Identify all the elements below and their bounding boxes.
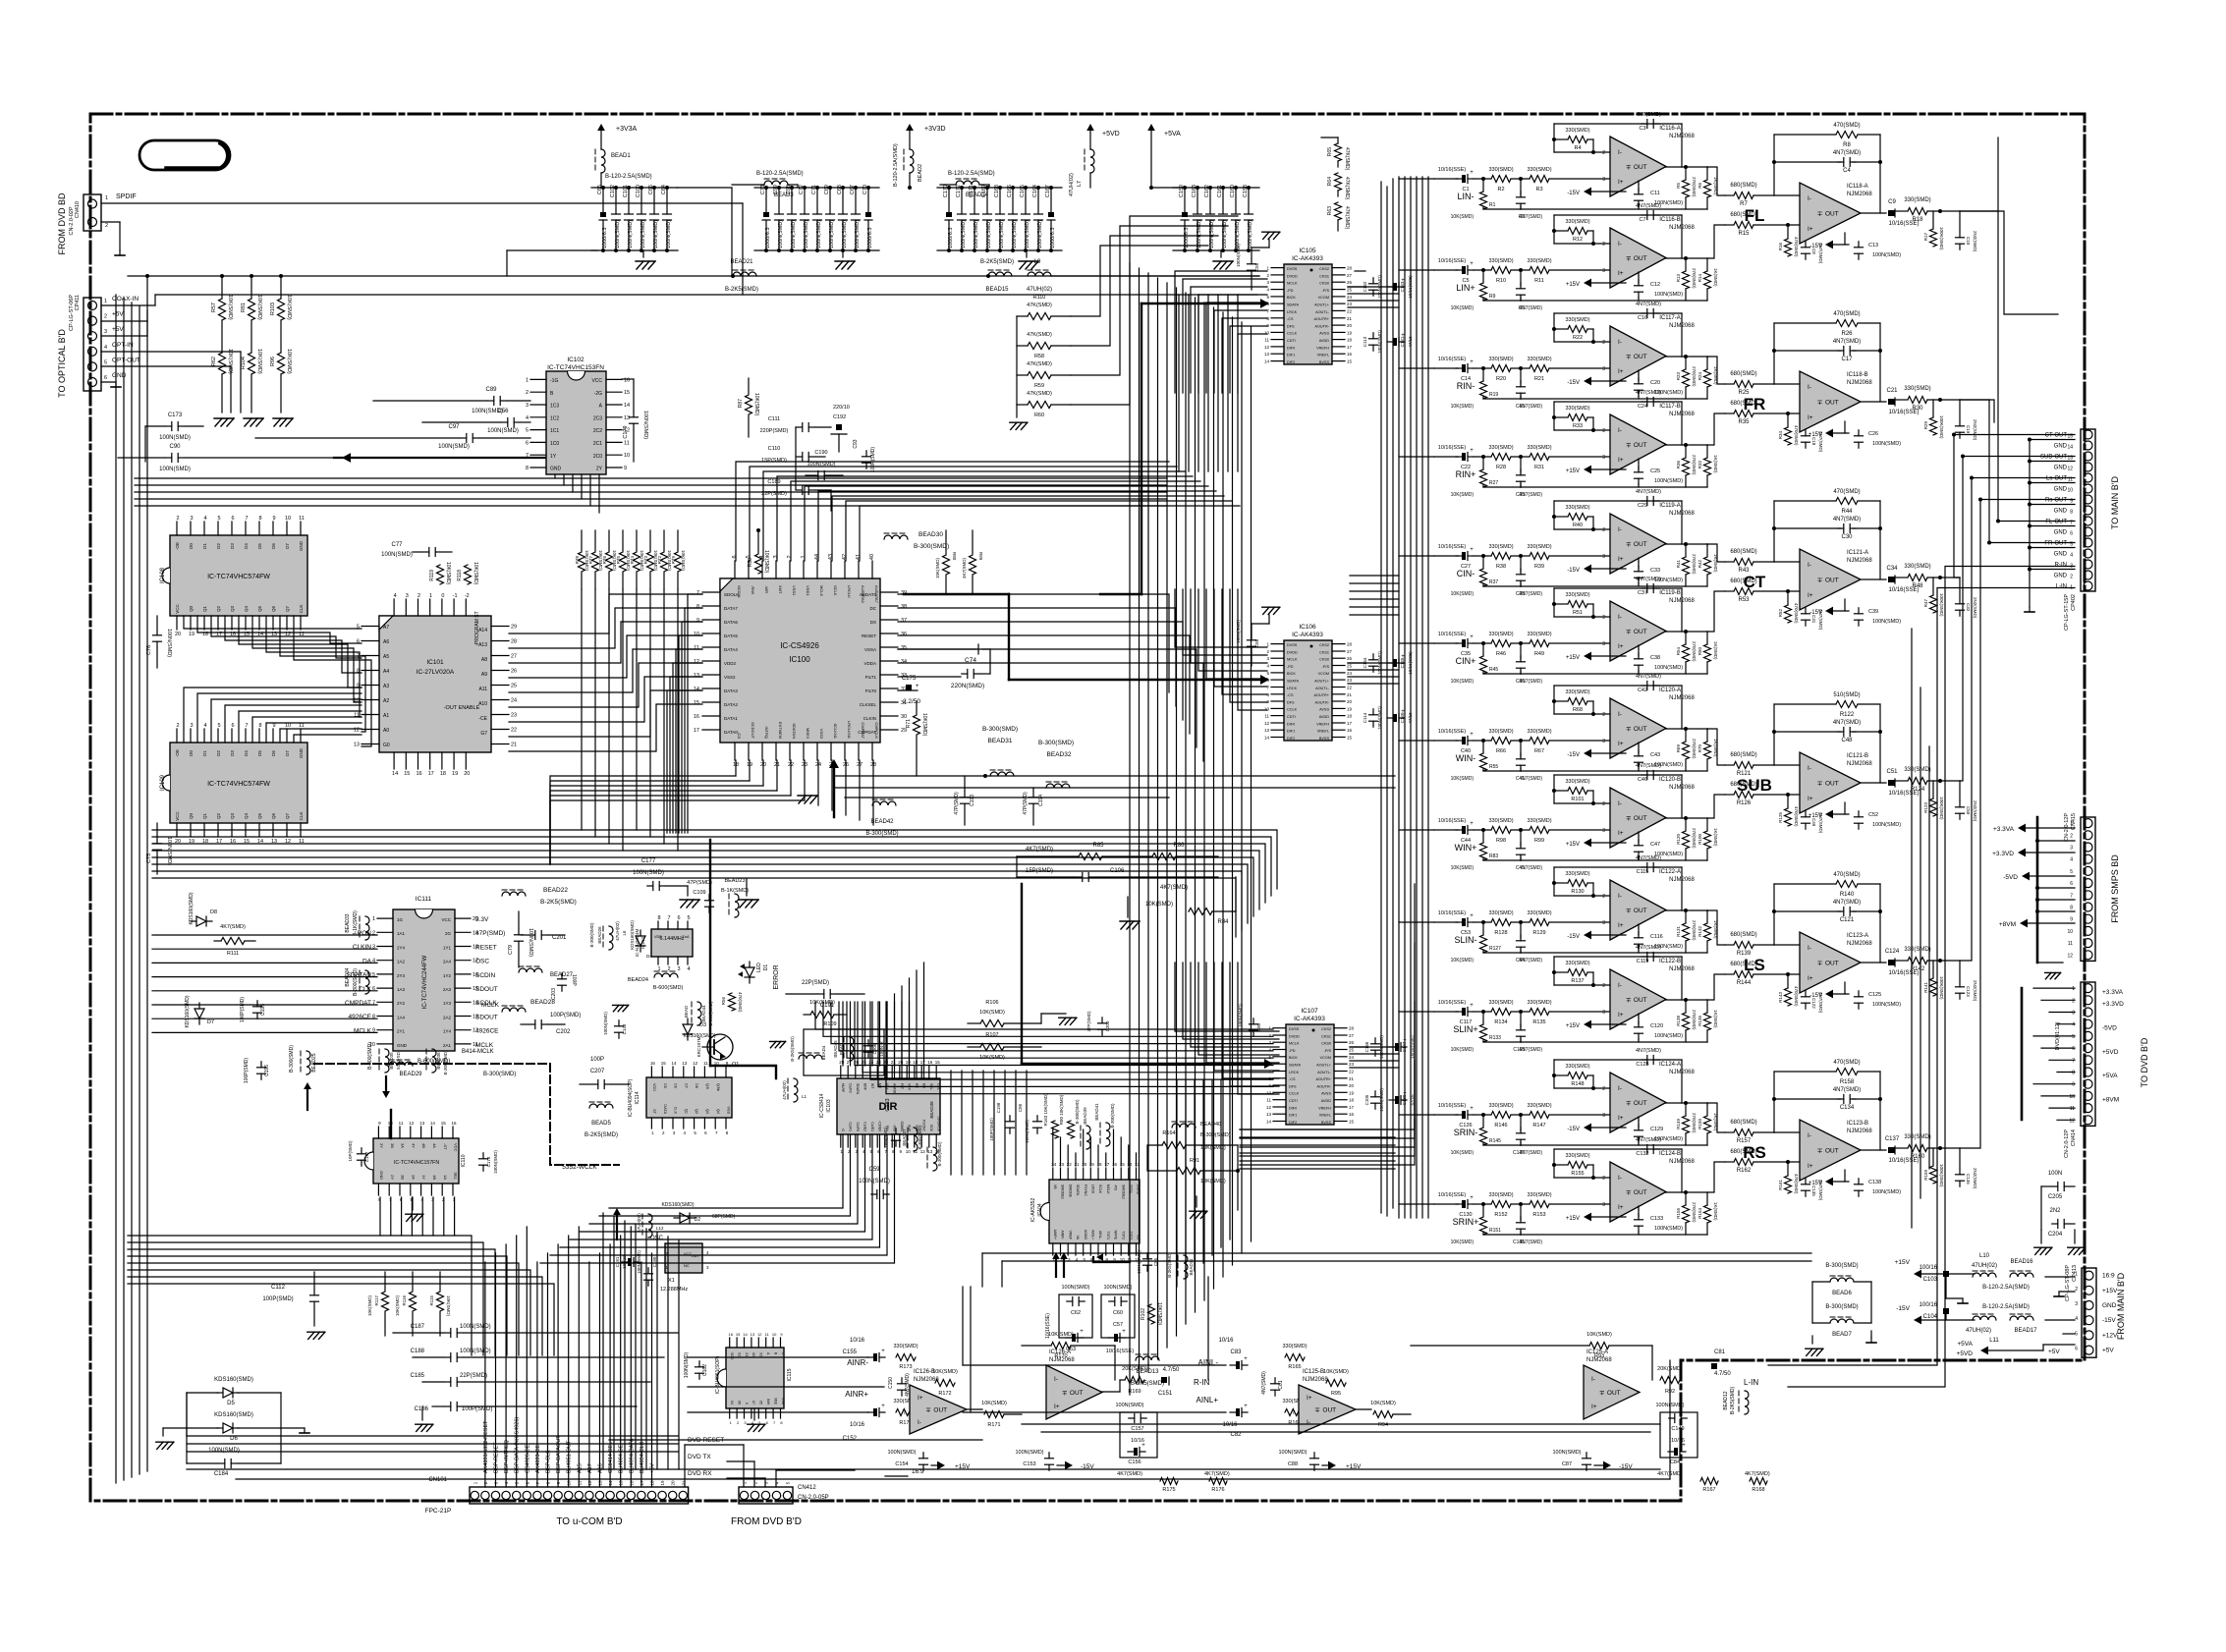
svg-text:VREFL: VREFL	[1317, 730, 1329, 734]
svg-text:330(SMD): 330(SMD)	[1904, 767, 1930, 773]
svg-text:8: 8	[2070, 906, 2073, 911]
svg-text:OSC: OSC	[475, 959, 489, 965]
svg-text:330(SMD): 330(SMD)	[1527, 818, 1551, 824]
resistor R165	[1282, 1344, 1307, 1370]
svg-text:330(SMD): 330(SMD)	[1527, 445, 1551, 451]
svg-text:3: 3	[526, 403, 529, 409]
capacitor C74	[898, 644, 990, 689]
svg-text:330(SMD): 330(SMD)	[1488, 632, 1513, 637]
svg-text:VDD: VDD	[654, 935, 662, 939]
ground center2	[739, 879, 758, 908]
svg-text:D4: D4	[244, 750, 249, 756]
svg-text:BEAD39: BEAD39	[1083, 1107, 1087, 1125]
svg-text:C129: C129	[1650, 1127, 1663, 1132]
svg-text:DSP-DATAOUT: DSP-DATAOUT	[556, 1435, 562, 1473]
svg-text:C37: C37	[1638, 590, 1647, 596]
svg-text:AVSS: AVSS	[1319, 708, 1329, 712]
svg-text:100N(SMD): 100N(SMD)	[1872, 1189, 1901, 1195]
svg-text:220P(SMD): 220P(SMD)	[760, 428, 789, 434]
svg-text:DATA1: DATA1	[724, 716, 738, 721]
svg-text:C84: C84	[1670, 1459, 1680, 1465]
svg-text:4N7(SMD): 4N7(SMD)	[1833, 517, 1861, 523]
svg-text:4N7(SMD): 4N7(SMD)	[1636, 1048, 1661, 1054]
svg-text:B-300(SMD): B-300(SMD)	[982, 726, 1018, 733]
svg-text:-PD: -PD	[1287, 665, 1294, 669]
svg-text:I-: I-	[1618, 711, 1622, 718]
svg-text:R101: R101	[1571, 797, 1584, 802]
svg-text:C189: C189	[767, 479, 780, 485]
bead BEAD30	[884, 531, 949, 550]
svg-text:C62: C62	[1071, 1310, 1081, 1316]
svg-text:R76: R76	[602, 556, 607, 565]
svg-text:16: 16	[451, 1121, 457, 1126]
svg-text:C20: C20	[1650, 380, 1660, 386]
feedback R4 C3	[1552, 112, 1682, 167]
channel row LIN+ input network	[1434, 258, 1610, 311]
svg-text:I-: I-	[1808, 195, 1811, 202]
svg-text:10/16(SSE): 10/16(SSE)	[1438, 1103, 1467, 1109]
svg-text:R79: R79	[671, 556, 676, 565]
svg-text:DATA6: DATA6	[724, 620, 738, 625]
op-amp IC119-A	[1602, 503, 1695, 574]
svg-text:-OE: -OE	[175, 749, 180, 757]
svg-text:C60: C60	[1113, 1310, 1123, 1316]
svg-text:I+: I+	[1618, 741, 1624, 747]
svg-text:100N(SMD): 100N(SMD)	[603, 1012, 608, 1035]
channel row SRIN+ input network	[1434, 1192, 1610, 1245]
svg-text:MCLK: MCLK	[1106, 1184, 1110, 1194]
svg-text:R94: R94	[1378, 1422, 1388, 1428]
svg-text:C201: C201	[552, 935, 567, 941]
svg-text:4: 4	[2075, 1316, 2078, 1322]
svg-text:FPC-21P: FPC-21P	[425, 1508, 452, 1514]
svg-text:22: 22	[1347, 308, 1353, 313]
svg-text:2: 2	[787, 555, 793, 558]
svg-text:BEAD37: BEAD37	[902, 1129, 907, 1146]
svg-text:D1: D1	[202, 750, 207, 756]
svg-text:C122: C122	[1811, 998, 1816, 1009]
bead BEAD39	[1075, 1099, 1090, 1149]
op-amp IC116-B	[1602, 217, 1695, 288]
arrows into IC104	[1052, 1252, 1130, 1277]
svg-text:IC118-A: IC118-A	[1847, 184, 1868, 190]
svg-text:VCC: VCC	[175, 604, 180, 614]
svg-text:AOUTR+: AOUTR+	[1313, 693, 1329, 697]
svg-text:C195: C195	[260, 1004, 266, 1016]
svg-text:330(SMD): 330(SMD)	[1488, 1103, 1513, 1109]
svg-text:C154: C154	[895, 1461, 908, 1467]
svg-text:CKS2: CKS2	[1319, 267, 1329, 271]
svg-text:SCDOUT: SCDOUT	[751, 722, 755, 739]
svg-text:+: +	[1470, 261, 1474, 267]
op-amp IC116-A	[1602, 126, 1695, 196]
svg-text:R130: R130	[1571, 889, 1584, 895]
resistor R116	[395, 1272, 417, 1336]
svg-text:270(SMD): 270(SMD)	[1692, 641, 1697, 662]
svg-text:CN-2.0-05P: CN-2.0-05P	[798, 1495, 829, 1501]
svg-text:100N(SMD): 100N(SMD)	[166, 629, 172, 657]
svg-text:CP-LG-ST-06P: CP-LG-ST-06P	[69, 295, 75, 331]
svg-text:100N(SMD): 100N(SMD)	[208, 1448, 240, 1454]
svg-text:Q2: Q2	[216, 813, 221, 820]
svg-text:C3: C3	[1639, 126, 1645, 132]
svg-text:11: 11	[2068, 941, 2073, 947]
svg-text:RE: RE	[915, 1083, 918, 1089]
svg-text:I-: I-	[1618, 526, 1622, 533]
svg-text:1K(SMD): 1K(SMD)	[1713, 268, 1718, 287]
svg-text:20: 20	[671, 1480, 676, 1486]
power +15V cap C52	[1809, 802, 1901, 829]
capacitor C86	[1018, 1103, 1042, 1143]
net 5352-WCLK	[562, 1164, 597, 1171]
svg-text:+5VA: +5VA	[1164, 131, 1181, 138]
svg-text:3: 3	[1602, 739, 1605, 744]
svg-text:R149: R149	[1676, 1119, 1681, 1129]
svg-text:OUT: OUT	[933, 1407, 947, 1414]
svg-text:OUT: OUT	[1634, 726, 1647, 733]
svg-text:6: 6	[2075, 1347, 2078, 1352]
op-amp IC117-B	[1602, 404, 1695, 474]
svg-text:VSS: VSS	[781, 1398, 785, 1405]
svg-text:CLKIN: CLKIN	[353, 944, 371, 951]
svg-text:4: 4	[394, 593, 397, 599]
wire bottom long lines	[187, 1360, 1670, 1479]
wire IC110 fan	[380, 1197, 455, 1236]
svg-text:220/10: 220/10	[833, 405, 850, 411]
svg-text:C26: C26	[1868, 431, 1878, 437]
svg-text:INTRQ: INTRQ	[764, 727, 769, 739]
svg-text:100P: 100P	[571, 974, 577, 986]
svg-text:AUDATA7: AUDATA7	[874, 585, 879, 604]
svg-text:IC-AK5352: IC-AK5352	[1030, 1198, 1036, 1223]
resistor R159 cap C136	[1923, 1148, 1977, 1189]
svg-text:R93: R93	[1594, 1353, 1604, 1359]
svg-text:CMPDAT: CMPDAT	[861, 722, 865, 739]
svg-text:C46: C46	[1638, 777, 1647, 783]
svg-text:1: 1	[429, 593, 432, 599]
svg-text:10: 10	[285, 723, 291, 729]
svg-text:GND: GND	[397, 1043, 408, 1048]
svg-text:10: 10	[285, 516, 291, 522]
svg-text:C29: C29	[1638, 503, 1647, 509]
svg-text:R57: R57	[211, 303, 217, 312]
svg-text:4: 4	[203, 723, 206, 729]
capacitor C177	[633, 858, 699, 908]
svg-text:2C2: 2C2	[593, 428, 602, 434]
svg-text:R156: R156	[1676, 1208, 1681, 1219]
svg-text:BEAD36: BEAD36	[436, 1052, 441, 1070]
svg-text:37: 37	[901, 618, 907, 624]
svg-text:BICK: BICK	[1287, 296, 1296, 300]
svg-text:22P(SMD): 22P(SMD)	[802, 980, 829, 986]
svg-text:330(SMD): 330(SMD)	[1565, 1064, 1589, 1070]
svg-text:C137: C137	[1885, 1136, 1900, 1142]
op-amp IC126-A	[1046, 1349, 1102, 1419]
feedback R40 C29	[1552, 489, 1682, 544]
svg-text:1000/6.3: 1000/6.3	[602, 228, 608, 248]
wire right outputs to CP402	[1952, 138, 2075, 1148]
svg-text:R59: R59	[1034, 383, 1044, 389]
svg-text:CP-LG-ST-15P: CP-LG-ST-15P	[2064, 594, 2070, 631]
svg-text:100N(SMD): 100N(SMD)	[1012, 220, 1018, 248]
svg-text:47UH(02): 47UH(02)	[1027, 287, 1052, 293]
net SDATAN	[347, 972, 372, 979]
svg-text:IC105: IC105	[1299, 248, 1316, 254]
svg-text:VDDA: VDDA	[863, 661, 876, 666]
svg-text:GND: GND	[2054, 487, 2068, 493]
svg-text:330(SMD): 330(SMD)	[1282, 1344, 1307, 1349]
svg-text:3: 3	[1602, 641, 1605, 647]
svg-text:C150: C150	[888, 1377, 894, 1389]
svg-text:R95: R95	[1331, 1391, 1341, 1397]
svg-text:AK4393/5352-RESET: AK4393/5352-RESET	[483, 1420, 489, 1473]
svg-text:VCOM: VCOM	[1320, 1056, 1331, 1060]
svg-text:21: 21	[1347, 316, 1353, 321]
wire stage1 to stage2 links	[1707, 167, 1725, 1192]
svg-text:CLK: CLK	[359, 986, 371, 993]
svg-text:D6: D6	[271, 750, 276, 756]
svg-text:330(SMD): 330(SMD)	[1904, 564, 1930, 570]
svg-text:330(SMD): 330(SMD)	[1488, 167, 1513, 173]
svg-text:R96: R96	[270, 357, 276, 366]
svg-text:Q1: Q1	[202, 606, 207, 613]
svg-text:-ST: -ST	[443, 1143, 448, 1150]
svg-text:A13: A13	[478, 642, 487, 648]
svg-text:100N(SMD): 100N(SMD)	[166, 837, 172, 865]
svg-text:47K(SMD): 47K(SMD)	[1344, 177, 1350, 200]
resistor R96	[270, 320, 292, 413]
svg-text:CN412: CN412	[798, 1485, 816, 1491]
svg-text:15: 15	[1349, 1120, 1355, 1125]
svg-text:23: 23	[511, 713, 517, 719]
svg-text:2: 2	[2070, 575, 2073, 580]
svg-text:DVSS: DVSS	[1289, 1027, 1300, 1031]
ground R91	[1190, 1196, 1207, 1218]
svg-text:16:9: 16:9	[2102, 1273, 2115, 1280]
svg-text:R41: R41	[1676, 560, 1681, 569]
capacitor C79	[508, 911, 533, 967]
wires power cluster to CP413	[2045, 1277, 2075, 1334]
svg-text:+15V: +15V	[1566, 468, 1580, 474]
svg-text:∓: ∓	[1314, 1407, 1320, 1414]
svg-text:CP402: CP402	[2071, 594, 2077, 611]
svg-text:330(SMD): 330(SMD)	[893, 1344, 918, 1349]
svg-text:3A: 3A	[401, 1143, 406, 1148]
svg-text:C134: C134	[1840, 1105, 1855, 1111]
svg-text:R4: R4	[1574, 145, 1581, 151]
svg-text:C145: C145	[1400, 657, 1405, 668]
svg-text:+: +	[1470, 448, 1474, 454]
svg-text:680(SMD): 680(SMD)	[1730, 962, 1756, 967]
svg-text:CN-2.0-12P: CN-2.0-12P	[2064, 1129, 2070, 1158]
svg-text:R122: R122	[1840, 712, 1855, 718]
svg-text:20: 20	[175, 632, 181, 637]
svg-text:680(SMD): 680(SMD)	[1730, 578, 1756, 584]
svg-text:25: 25	[1347, 288, 1353, 293]
resistor R141 cap C123	[1923, 961, 1977, 1002]
svg-text:IC118-B: IC118-B	[1847, 372, 1868, 378]
capacitor C205	[2048, 1171, 2070, 1200]
svg-text:1K(SMD): 1K(SMD)	[1713, 641, 1718, 660]
svg-text:BEAD35: BEAD35	[389, 1052, 394, 1070]
bead BEAD40	[1172, 1122, 1231, 1138]
svg-text:CDTI: CDTI	[1287, 715, 1296, 719]
svg-text:100/16: 100/16	[1920, 1265, 1938, 1271]
svg-text:+: +	[1470, 547, 1474, 553]
svg-text:Ca/E2: Ca/E2	[863, 1122, 867, 1131]
svg-text:-PD: -PD	[1114, 1184, 1118, 1191]
svg-text:L9: L9	[1034, 259, 1041, 265]
svg-text:330(SMD): 330(SMD)	[1904, 386, 1930, 392]
resistor R115	[429, 1272, 451, 1336]
svg-text:Q2: Q2	[695, 1109, 698, 1114]
svg-text:DATA3: DATA3	[724, 688, 738, 693]
svg-text:DIF2: DIF2	[1289, 1121, 1297, 1125]
svg-text:IC-27LV020A: IC-27LV020A	[417, 669, 455, 676]
svg-text:∓: ∓	[1817, 781, 1823, 788]
svg-text:C32: C32	[1966, 603, 1971, 612]
svg-text:AINR-: AINR-	[847, 1358, 868, 1367]
svg-text:B-300(SMD): B-300(SMD)	[289, 1045, 295, 1073]
svg-text:-5VD: -5VD	[2003, 874, 2018, 881]
svg-text:L10: L10	[1979, 1253, 1990, 1259]
svg-text:R9: R9	[1489, 294, 1496, 300]
svg-text:330(SMD): 330(SMD)	[1527, 1192, 1551, 1198]
svg-text:4N7(SMD): 4N7(SMD)	[1833, 720, 1861, 726]
svg-text:1: 1	[526, 377, 529, 383]
svg-text:7: 7	[1292, 1410, 1295, 1416]
svg-text:2: 2	[1602, 150, 1605, 156]
svg-text:C109: C109	[693, 890, 705, 896]
svg-text:R125: R125	[1778, 812, 1783, 823]
svg-text:43: 43	[828, 554, 834, 560]
svg-text:Q1: Q1	[202, 813, 207, 820]
resistor R62	[211, 320, 233, 413]
svg-text:27: 27	[1347, 649, 1353, 654]
wire center horizontals to IC107	[815, 1002, 1273, 1094]
svg-text:11: 11	[703, 1061, 708, 1066]
net AINR+	[843, 1390, 886, 1442]
svg-text:470(SMD): 470(SMD)	[1833, 872, 1860, 878]
svg-text:470(SMD): 470(SMD)	[738, 992, 743, 1013]
svg-text:R45: R45	[1489, 667, 1498, 673]
svg-text:R89: R89	[978, 552, 983, 561]
svg-text:7: 7	[526, 453, 529, 459]
svg-text:47UH(02): 47UH(02)	[1972, 1263, 1997, 1269]
svg-text:VSS: VSS	[727, 1106, 731, 1114]
svg-text:2: 2	[105, 223, 108, 229]
svg-text:NJM2068: NJM2068	[1303, 1377, 1328, 1383]
svg-text:R51: R51	[1573, 610, 1583, 616]
svg-text:OUT: OUT	[1825, 961, 1839, 967]
svg-text:C30: C30	[1841, 534, 1853, 540]
svg-text:AVSS: AVSS	[1319, 332, 1329, 336]
svg-text:BEAD23: BEAD23	[724, 878, 745, 884]
svg-text:OUT: OUT	[1634, 629, 1647, 635]
svg-text:D1: D1	[202, 543, 207, 549]
svg-text:17: 17	[1347, 721, 1353, 726]
svg-text:+: +	[1470, 913, 1474, 919]
net CLK	[359, 986, 371, 993]
svg-text:I+: I+	[1618, 830, 1624, 837]
svg-text:MCLK: MCLK	[1287, 282, 1298, 286]
svg-text:330(SMD): 330(SMD)	[1565, 689, 1589, 695]
svg-text:24: 24	[1349, 1055, 1355, 1060]
svg-text:R40: R40	[1573, 523, 1583, 528]
svg-text:330(SMD): 330(SMD)	[1488, 258, 1513, 264]
svg-text:C13: C13	[1868, 243, 1878, 248]
svg-text:A0: A0	[383, 728, 389, 734]
svg-text:2N2(SMD): 2N2(SMD)	[1973, 419, 1977, 441]
diodes D5 D6 C184	[156, 1377, 309, 1477]
svg-text:+15V: +15V	[1566, 1023, 1580, 1029]
channel row WIN+ input network	[1434, 818, 1610, 871]
svg-text:I-: I-	[1808, 384, 1811, 391]
svg-text:R43: R43	[1738, 568, 1750, 574]
svg-text:16: 16	[1347, 728, 1353, 733]
ground IC115	[748, 1408, 765, 1431]
svg-text:-15V: -15V	[1567, 752, 1580, 758]
output cap C34 resistor R48	[1861, 564, 1960, 593]
svg-text:28: 28	[511, 639, 517, 645]
svg-text:470(SMD): 470(SMD)	[1833, 1060, 1860, 1066]
svg-text:VCC: VCC	[454, 1143, 459, 1152]
svg-text:-5VD: -5VD	[2102, 1024, 2117, 1031]
feedback R33 C24	[1552, 390, 1682, 445]
svg-text:VREFH: VREFH	[1316, 722, 1329, 726]
svg-text:3: 3	[677, 966, 680, 972]
svg-text:22: 22	[1067, 1162, 1073, 1167]
svg-text:47K(SMD): 47K(SMD)	[1027, 391, 1052, 397]
svg-text:1K(SMD): 1K(SMD)	[1713, 828, 1718, 847]
svg-text:20: 20	[1349, 1083, 1355, 1088]
svg-text:A2: A2	[383, 698, 389, 704]
svg-text:C180: C180	[652, 1256, 657, 1267]
svg-text:R139: R139	[1737, 951, 1752, 957]
svg-text:+3.3VD: +3.3VD	[1992, 851, 2014, 857]
svg-text:INH: INH	[766, 1399, 770, 1405]
svg-text:+3V3D: +3V3D	[924, 126, 946, 133]
capacitor bank C65 C102 C101 C100 C66 C64	[591, 185, 678, 252]
svg-text:SLIN+: SLIN+	[1453, 1024, 1477, 1034]
svg-text:I+: I+	[1307, 1395, 1312, 1402]
svg-text:10K(SMD): 10K(SMD)	[1323, 1369, 1349, 1375]
wire OPT-OUT	[101, 366, 231, 413]
feedback R44 C30	[1772, 489, 1882, 579]
svg-text:I-: I-	[1618, 893, 1622, 900]
svg-text:D5: D5	[663, 1083, 667, 1088]
svg-text:NC: NC	[684, 1263, 690, 1268]
svg-text:100/16: 100/16	[1920, 1302, 1938, 1308]
svg-text:22: 22	[1349, 1070, 1355, 1074]
svg-text:R66: R66	[1496, 748, 1506, 754]
svg-text:R115: R115	[429, 1295, 434, 1306]
svg-text:24: 24	[1347, 295, 1353, 300]
svg-text:R69: R69	[1676, 744, 1681, 753]
svg-text:AOUTR-: AOUTR-	[1314, 700, 1329, 704]
svg-text:C57: C57	[1113, 1322, 1123, 1328]
svg-text:68P(SMD): 68P(SMD)	[712, 1214, 736, 1220]
svg-text:2N2(SMD): 2N2(SMD)	[1973, 1168, 1977, 1189]
svg-text:19: 19	[452, 771, 458, 777]
svg-text:3: 3	[2070, 846, 2073, 852]
svg-text:SDOLK: SDOLK	[724, 592, 739, 597]
svg-text:100N(SMD): 100N(SMD)	[778, 220, 784, 248]
svg-text:270(SMD): 270(SMD)	[1692, 1113, 1697, 1133]
svg-text:4K7(SMD): 4K7(SMD)	[1117, 1471, 1142, 1477]
channel row WIN- input network	[1434, 729, 1610, 782]
svg-text:L6: L6	[622, 930, 627, 936]
